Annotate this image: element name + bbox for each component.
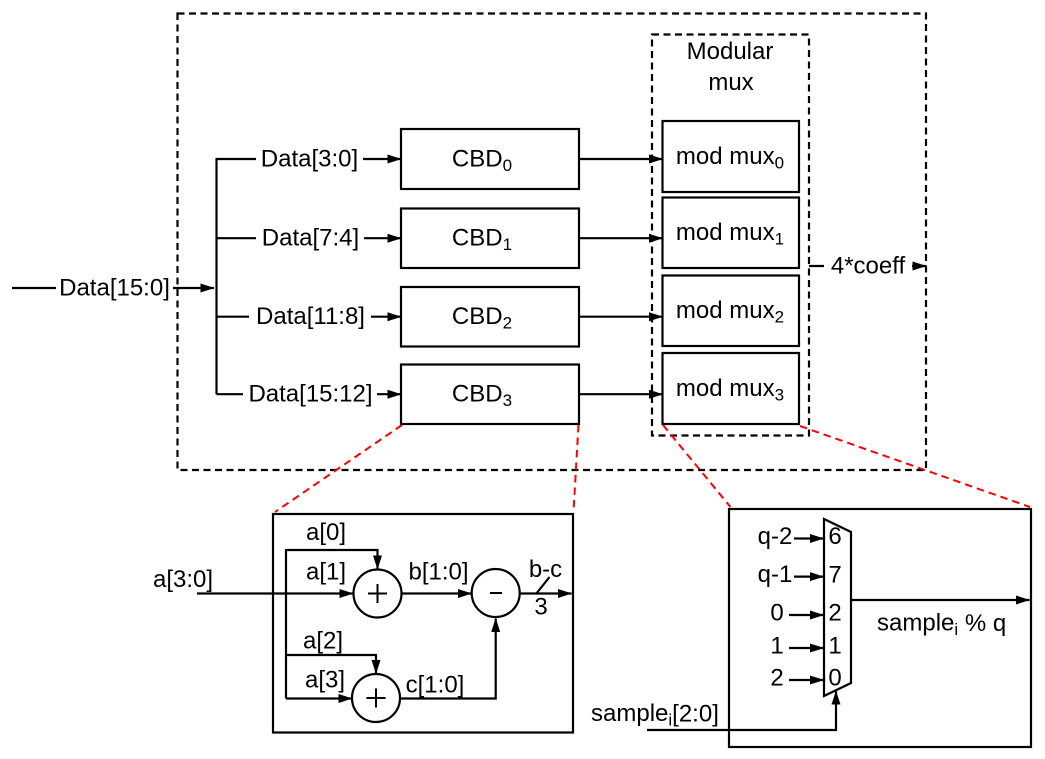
- svg-text:CBD0: CBD0: [452, 146, 512, 175]
- svg-text:q-2: q-2: [758, 523, 793, 550]
- wire a[3:0] main input: [197, 592, 353, 594]
- mod mux detail box: [729, 509, 1031, 747]
- wire const 2: [789, 679, 824, 681]
- svg-text:a[3]: a[3]: [305, 667, 345, 694]
- svg-text:2: 2: [828, 600, 841, 627]
- svg-text:2: 2: [770, 665, 783, 692]
- svg-text:mod mux1: mod mux1: [676, 219, 784, 248]
- svg-text:CBD3: CBD3: [452, 381, 512, 410]
- adder circle upper: [354, 570, 402, 618]
- svg-text:a[0]: a[0]: [306, 519, 346, 546]
- wire branch vertical trunk: [215, 158, 217, 394]
- block CBD1: [401, 209, 579, 269]
- svg-text:b-c: b-c: [529, 556, 562, 583]
- svg-text:samplei % q: samplei % q: [877, 610, 1006, 639]
- wire a[3]: [286, 697, 352, 699]
- svg-text:b[1:0]: b[1:0]: [408, 559, 468, 586]
- svg-text:7: 7: [828, 562, 841, 589]
- svg-text:1: 1: [828, 633, 841, 660]
- block CBD3: [401, 365, 579, 425]
- inner dashed Modular mux box: [652, 35, 809, 436]
- svg-text:a[1]: a[1]: [306, 559, 346, 586]
- wire Data[11:8] to CBD2: [217, 316, 402, 318]
- label 4*coeff: [824, 253, 912, 279]
- block CBD0: [401, 129, 579, 189]
- wire CBD0 to mod mux0: [579, 158, 663, 160]
- wire adder to subtractor: [402, 592, 472, 594]
- svg-text:Data[15:0]: Data[15:0]: [59, 275, 170, 302]
- wire feeder vertical: [285, 549, 287, 699]
- red callout line mod mux3 right: [800, 426, 1030, 507]
- red callout line CBD3 right: [574, 425, 579, 512]
- svg-text:samplei[2:0]: samplei[2:0]: [591, 700, 719, 729]
- svg-text:mod mux0: mod mux0: [676, 143, 784, 172]
- block CBD2: [401, 287, 579, 347]
- wire const 0: [789, 614, 824, 616]
- svg-text:Modular: Modular: [687, 38, 774, 65]
- bus width slash: [536, 577, 550, 594]
- wire CBD1 to mod mux1: [579, 237, 663, 239]
- wire a[0]: [286, 550, 378, 569]
- svg-text:c[1:0]: c[1:0]: [406, 672, 465, 699]
- wire q-1: [794, 575, 824, 577]
- svg-text:0: 0: [770, 600, 783, 627]
- wire Data[15:12] to CBD3: [217, 393, 402, 395]
- svg-text:mux: mux: [708, 69, 753, 96]
- wire 4*coeff output: [809, 265, 926, 267]
- mux trapezoid: [824, 519, 851, 696]
- svg-text:4*coeff: 4*coeff: [831, 253, 906, 280]
- red callout line CBD3 left: [275, 425, 402, 512]
- wire select input: [647, 691, 836, 730]
- wire Data[7:4] to CBD1: [217, 237, 402, 239]
- svg-text:3: 3: [534, 594, 547, 621]
- subtractor circle: [472, 569, 520, 617]
- adder circle lower: [352, 674, 400, 722]
- block mod mux3: [663, 353, 800, 424]
- wire b-c output: [520, 592, 572, 594]
- svg-text:q-1: q-1: [758, 561, 793, 588]
- wire CBD3 to mod mux3: [579, 393, 663, 395]
- svg-text:Data[11:8]: Data[11:8]: [256, 303, 365, 330]
- CBD detail box: [273, 514, 573, 733]
- svg-text:mod mux2: mod mux2: [676, 297, 784, 326]
- svg-text:a[3:0]: a[3:0]: [153, 566, 213, 593]
- wire mux output: [851, 599, 1030, 601]
- svg-text:a[2]: a[2]: [303, 628, 343, 655]
- label Data[15:0]: [56, 275, 173, 301]
- svg-text:0: 0: [828, 665, 841, 692]
- svg-text:CBD1: CBD1: [452, 225, 512, 254]
- red callout line mod mux3 left: [663, 425, 731, 507]
- svg-text:Data[15:12]: Data[15:12]: [248, 381, 372, 408]
- wire c to subtractor: [400, 619, 496, 699]
- svg-text:Data[7:4]: Data[7:4]: [262, 225, 359, 252]
- wire Data[3:0] to CBD0: [217, 158, 402, 160]
- svg-text:mod mux3: mod mux3: [676, 375, 784, 404]
- wire a[2]: [286, 655, 376, 674]
- outer dashed system box: [178, 14, 927, 471]
- svg-text:CBD2: CBD2: [452, 303, 512, 332]
- wire const 1: [789, 647, 824, 649]
- block mod mux2: [663, 276, 800, 347]
- block mod mux1: [663, 198, 800, 269]
- svg-text:6: 6: [828, 523, 841, 550]
- wire CBD2 to mod mux2: [579, 316, 663, 318]
- svg-text:Data[3:0]: Data[3:0]: [261, 146, 358, 173]
- wire Data[15:0] input: [12, 287, 214, 289]
- wire q-2: [794, 537, 824, 539]
- label Data[15:12]: [243, 381, 377, 407]
- block mod mux0: [663, 121, 800, 192]
- label Data[7:4]: [256, 225, 364, 251]
- svg-text:1: 1: [770, 633, 783, 660]
- label Data[3:0]: [256, 146, 363, 172]
- label Data[11:8]: [249, 304, 371, 330]
